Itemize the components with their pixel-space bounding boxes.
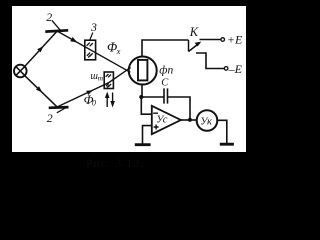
photodetector FP xyxy=(129,57,157,85)
label Sht xyxy=(90,71,103,83)
wire: node A to capacitor xyxy=(141,96,163,98)
mirror 2 (top) xyxy=(45,30,68,31)
wire: switch to +E terminal xyxy=(200,39,221,41)
svg-text:К: К xyxy=(189,25,199,39)
lamp source xyxy=(14,65,27,78)
ground (op-amp input) xyxy=(135,143,151,146)
indicator UK xyxy=(197,110,218,131)
plate 3 (measuring attenuator) xyxy=(85,40,96,60)
wire: op-amp output to indicator xyxy=(181,119,196,121)
beam: bottom mirror to photodetector through shutter xyxy=(57,68,131,108)
svg-text:–Е: –Е xyxy=(228,62,243,76)
wire: photodetector bottom to node A xyxy=(141,85,143,97)
node A junction dot xyxy=(139,95,143,99)
wire: photodetector top to switch xyxy=(142,40,189,56)
leader line for label 2 (bottom) xyxy=(57,108,66,113)
wire: node A down to inverting input xyxy=(141,97,152,114)
svg-text:2: 2 xyxy=(46,10,52,24)
leader line for label 2 (top) xyxy=(52,20,61,30)
leader line for label 3 xyxy=(90,33,93,41)
switch K xyxy=(189,40,202,52)
terminal +E xyxy=(221,38,225,42)
mirror 2 (bottom) xyxy=(49,106,69,109)
svg-text:Рис. 3.12.: Рис. 3.12. xyxy=(86,158,144,170)
svg-text:x: x xyxy=(116,46,121,56)
ground (indicator) xyxy=(220,143,234,146)
svg-text:Ук: Ук xyxy=(200,116,212,127)
wire: switch to -E terminal xyxy=(196,53,224,69)
op-amp US xyxy=(152,106,181,134)
svg-text:3: 3 xyxy=(90,20,97,34)
svg-text:+Е: +Е xyxy=(227,33,243,47)
beam: source to bottom mirror xyxy=(25,76,57,107)
svg-text:С: С xyxy=(161,78,169,89)
terminal -E xyxy=(224,67,228,71)
wire: non-inverting input to ground xyxy=(143,126,152,144)
output node junction dot xyxy=(188,118,192,122)
label Phi-x (flux) xyxy=(107,39,121,55)
svg-text:т: т xyxy=(98,73,104,82)
beam: source to top mirror xyxy=(25,31,57,66)
svg-text:2: 2 xyxy=(47,111,53,125)
svg-text:0: 0 xyxy=(92,99,96,108)
wire: indicator to ground xyxy=(218,120,227,143)
svg-text:фп: фп xyxy=(159,64,173,76)
svg-text:Ус: Ус xyxy=(156,114,168,125)
shutter motion double arrow xyxy=(105,92,115,108)
wire: capacitor to output node xyxy=(168,97,190,120)
beam: top mirror to photodetector through plate 3 xyxy=(57,31,130,72)
capacitor C xyxy=(164,88,168,103)
shutter Sht (modulator) xyxy=(104,72,113,89)
label Phi-0 (reference flux) xyxy=(84,92,96,108)
